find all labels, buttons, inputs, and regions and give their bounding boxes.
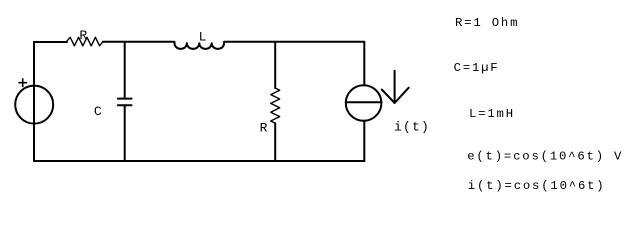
svg-text:C=1µF: C=1µF (454, 61, 500, 75)
svg-text:R: R (260, 121, 269, 136)
svg-text:e(t)=cos(10^6t) V: e(t)=cos(10^6t) V (467, 150, 623, 164)
svg-text:R: R (79, 28, 88, 43)
svg-text:i(t)=cos(10^6t): i(t)=cos(10^6t) (468, 179, 606, 193)
svg-text:L=1mH: L=1mH (469, 107, 515, 121)
svg-text:C: C (94, 104, 103, 119)
svg-text:L: L (199, 30, 208, 45)
svg-text:R=1 Ohm: R=1 Ohm (455, 16, 519, 30)
svg-text:i(t): i(t) (394, 120, 430, 135)
